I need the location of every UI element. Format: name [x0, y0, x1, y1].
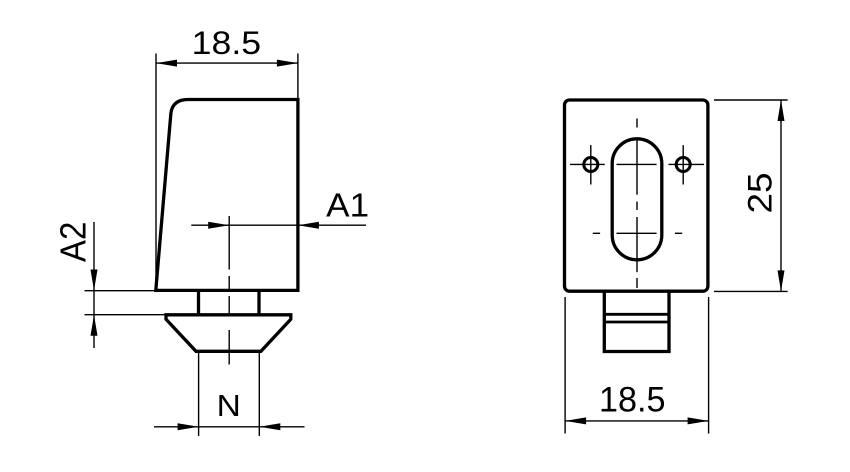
svg-text:N: N — [217, 388, 241, 423]
svg-text:25: 25 — [741, 173, 779, 214]
svg-text:A1: A1 — [326, 188, 369, 225]
svg-text:18.5: 18.5 — [599, 381, 666, 420]
svg-text:A2: A2 — [53, 222, 94, 263]
svg-text:18.5: 18.5 — [192, 25, 261, 61]
